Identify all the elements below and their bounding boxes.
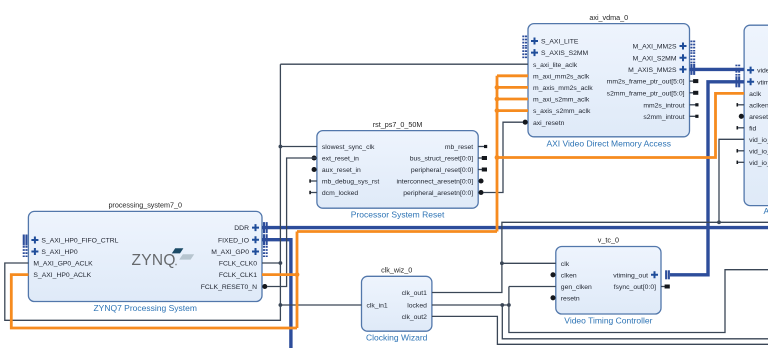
svg-text:clk_wiz_0: clk_wiz_0 (381, 266, 412, 275)
svg-text:s2mm_introut: s2mm_introut (643, 114, 684, 121)
svg-text:bus_struct_reset[0:0]: bus_struct_reset[0:0] (410, 156, 474, 163)
svg-text:clken: clken (561, 272, 577, 279)
svg-text:Processor System Reset: Processor System Reset (351, 210, 445, 220)
svg-text:axi_vdma_0: axi_vdma_0 (589, 13, 628, 22)
svg-text:processing_system7_0: processing_system7_0 (108, 201, 182, 210)
svg-text:interconnect_aresetn[0:0]: interconnect_aresetn[0:0] (396, 179, 473, 186)
svg-text:mm2s_introut: mm2s_introut (643, 102, 684, 109)
svg-text:s2mm_frame_ptr_out[5:0]: s2mm_frame_ptr_out[5:0] (607, 90, 685, 97)
svg-text:vtiming_out: vtiming_out (613, 272, 648, 279)
svg-text:s_axis_s2mm_aclk: s_axis_s2mm_aclk (533, 108, 591, 115)
svg-text:aclk: aclk (749, 91, 762, 98)
svg-text:ext_reset_in: ext_reset_in (322, 156, 359, 163)
svg-text:peripheral_reset[0:0]: peripheral_reset[0:0] (411, 167, 473, 174)
svg-text:clk_out2: clk_out2 (402, 314, 428, 321)
svg-text:mb_reset: mb_reset (445, 144, 473, 151)
svg-text:mb_debug_sys_rst: mb_debug_sys_rst (322, 179, 380, 186)
svg-text:resetn: resetn (561, 295, 580, 302)
svg-text:vid_io_out_ce: vid_io_out_ce (749, 148, 768, 155)
svg-text:M_AXIS_MM2S: M_AXIS_MM2S (628, 67, 677, 74)
svg-text:ZYNQ: ZYNQ (132, 252, 176, 269)
svg-text:fsync_out[0:0]: fsync_out[0:0] (614, 284, 656, 291)
svg-text:S_AXIS_S2MM: S_AXIS_S2MM (541, 50, 589, 57)
svg-text:video_in: video_in (757, 68, 768, 75)
svg-text:S_AXI_HP0: S_AXI_HP0 (41, 249, 77, 256)
svg-text:vid_io_out_clk: vid_io_out_clk (749, 137, 768, 144)
svg-text:M_AXI_GP0: M_AXI_GP0 (211, 249, 249, 256)
svg-text:aux_reset_in: aux_reset_in (322, 167, 361, 174)
svg-text:m_axi_mm2s_aclk: m_axi_mm2s_aclk (533, 73, 590, 80)
svg-text:M_AXI_GP0_ACLK: M_AXI_GP0_ACLK (33, 261, 93, 268)
svg-text:AXI Video Direct Memory Access: AXI Video Direct Memory Access (546, 138, 671, 148)
svg-text:peripheral_aresetn[0:0]: peripheral_aresetn[0:0] (403, 190, 473, 197)
svg-text:Clocking Wizard: Clocking Wizard (366, 333, 428, 343)
svg-text:s_axi_lite_aclk: s_axi_lite_aclk (533, 62, 578, 69)
svg-text:FCLK_CLK0: FCLK_CLK0 (219, 261, 257, 268)
svg-text:Video Timing Controller: Video Timing Controller (564, 316, 652, 326)
svg-text:m_axi_s2mm_aclk: m_axi_s2mm_aclk (533, 97, 590, 104)
svg-text:ZYNQ7 Processing System: ZYNQ7 Processing System (93, 303, 196, 313)
svg-text:FCLK_CLK1: FCLK_CLK1 (219, 272, 257, 279)
svg-text:fid: fid (749, 125, 756, 132)
svg-text:v_tc_0: v_tc_0 (598, 236, 619, 245)
svg-text:aresetn: aresetn (749, 114, 768, 121)
svg-text:S_AXI_LITE: S_AXI_LITE (541, 39, 579, 46)
svg-text:S_AXI_HP0_FIFO_CTRL: S_AXI_HP0_FIFO_CTRL (41, 238, 118, 245)
svg-text:S_AXI_HP0_ACLK: S_AXI_HP0_ACLK (33, 272, 91, 279)
svg-text:m_axis_mm2s_aclk: m_axis_mm2s_aclk (533, 85, 593, 92)
svg-text:FIXED_IO: FIXED_IO (218, 237, 249, 244)
svg-text:axi_resetn: axi_resetn (533, 120, 565, 127)
svg-text:locked: locked (407, 303, 427, 310)
svg-text:vid_io_out_reset: vid_io_out_reset (749, 160, 768, 167)
svg-text:A: A (764, 206, 768, 216)
svg-text:FCLK_RESET0_N: FCLK_RESET0_N (201, 284, 257, 291)
svg-text:DDR: DDR (234, 225, 249, 232)
svg-text:vtiming_in: vtiming_in (757, 79, 768, 86)
svg-text:clk: clk (561, 261, 570, 268)
svg-text:aclken: aclken (749, 102, 768, 109)
svg-text:clk_out1: clk_out1 (402, 290, 428, 297)
svg-text:mm2s_frame_ptr_out[5:0]: mm2s_frame_ptr_out[5:0] (607, 79, 685, 86)
svg-text:dcm_locked: dcm_locked (322, 190, 358, 197)
svg-text:gen_clken: gen_clken (561, 284, 592, 291)
svg-text:M_AXI_S2MM: M_AXI_S2MM (633, 55, 677, 62)
svg-text:rst_ps7_0_50M: rst_ps7_0_50M (373, 120, 423, 129)
svg-text:clk_in1: clk_in1 (367, 303, 388, 310)
svg-text:M_AXI_MM2S: M_AXI_MM2S (633, 44, 677, 51)
svg-text:slowest_sync_clk: slowest_sync_clk (322, 144, 375, 151)
